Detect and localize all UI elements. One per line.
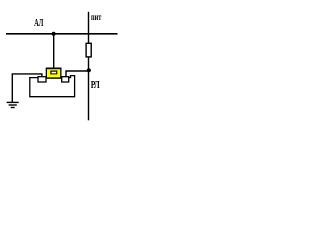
wire drain to bit line	[66, 71, 89, 77]
drain diffusion right	[62, 77, 69, 82]
substrate body	[30, 76, 75, 97]
wire source to ground	[12, 74, 42, 102]
wire АЛ address line horizontal	[6, 33, 118, 35]
gate (floating gate stack)	[46, 68, 62, 79]
svg-text:РЛ: РЛ	[91, 80, 100, 91]
node dot on РЛ	[87, 68, 91, 72]
node dot on АЛ	[52, 32, 56, 36]
ground	[7, 101, 19, 103]
wire resistor to bit line	[88, 57, 90, 120]
svg-text:пит: пит	[91, 13, 102, 23]
resistor R load	[86, 43, 91, 57]
gate inner electrode	[50, 71, 57, 75]
wire пит power vertical	[88, 12, 90, 44]
svg-text:АЛ: АЛ	[34, 18, 44, 29]
wire address line to gate	[53, 34, 55, 69]
source diffusion left	[38, 77, 46, 82]
